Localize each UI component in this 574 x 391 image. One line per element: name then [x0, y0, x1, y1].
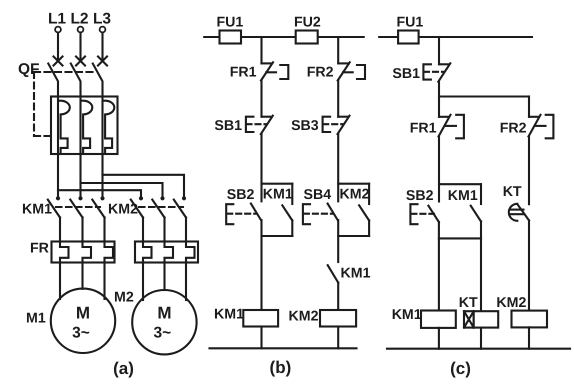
wire to KM1 coil c — [438, 222, 440, 311]
wire FR1 to SB1 — [260, 81, 262, 117]
QF dashed vertical — [33, 72, 35, 136]
aux contact KM1 (NO) b — [282, 184, 292, 236]
time contact KT (NO, on-delay) — [509, 204, 529, 221]
wire rail to FR2 — [337, 37, 339, 63]
svg-text:(b): (b) — [270, 358, 292, 377]
wire rail to FR1 — [260, 37, 262, 63]
svg-text:KM1: KM1 — [392, 307, 422, 323]
wire SB1 to split c — [438, 82, 440, 117]
motor M2 — [132, 290, 196, 354]
pushbutton SB2 (NO) — [226, 204, 261, 225]
split line c upper — [439, 95, 529, 97]
KM1 linkage dashed — [56, 206, 100, 208]
svg-text:L3: L3 — [93, 11, 111, 28]
terminal L3 — [100, 27, 106, 33]
svg-text:KM1: KM1 — [448, 188, 478, 204]
QF contact cross pole1 — [54, 57, 63, 66]
wire KT contact to KM2 coil — [528, 220, 530, 310]
wire KM2 coil to rail — [337, 327, 339, 349]
svg-text:FR1: FR1 — [410, 121, 437, 137]
svg-text:KM1: KM1 — [22, 202, 52, 218]
aux contact KM2 (NO) b — [359, 184, 369, 236]
pushbutton SB1 (NC) — [246, 116, 273, 134]
wire to motor1 a — [59, 263, 61, 300]
FR box 2 — [135, 242, 198, 263]
aux contact KM1 (NO) c — [471, 184, 481, 238]
KM2 linkage dashed — [139, 206, 183, 208]
wire FR2 to SB3 — [337, 81, 339, 117]
QF dashed horizontal to box — [34, 135, 51, 137]
join line c — [439, 237, 481, 239]
svg-text:(a): (a) — [113, 359, 134, 378]
svg-text:KM1: KM1 — [263, 187, 293, 203]
QF release pole3 — [103, 97, 115, 155]
svg-text:3~: 3~ — [154, 325, 172, 342]
svg-text:KT: KT — [503, 184, 522, 200]
thermal contact FR1 c — [439, 115, 464, 139]
thermal contact FR1 — [261, 62, 288, 80]
split line c lower — [439, 183, 481, 185]
FR2 heater pole1 — [143, 242, 152, 263]
KM2 main contact pole2 — [152, 196, 164, 241]
wire to KM1 coil — [260, 220, 262, 310]
svg-text:KM2: KM2 — [289, 309, 319, 325]
svg-text:KM1: KM1 — [214, 307, 244, 323]
FR2 heater pole2 — [165, 242, 174, 263]
QF linkage dashed line — [34, 71, 97, 73]
top rail b — [204, 36, 364, 38]
svg-text:M: M — [157, 304, 171, 323]
QF blade pole1 — [48, 64, 58, 97]
pushbutton SB3 (NC) — [323, 116, 350, 134]
QF blade pole2 — [71, 64, 81, 97]
svg-text:M2: M2 — [114, 290, 134, 306]
svg-text:SB3: SB3 — [291, 118, 319, 134]
wire FR2 to KT contact — [528, 137, 530, 205]
fuse FU1 c — [398, 31, 419, 44]
FR box 1 — [52, 242, 115, 263]
fuse FU2 b — [296, 31, 318, 44]
pushbutton SB2 (NO) c — [410, 204, 439, 224]
QF contact cross pole3 — [98, 57, 107, 66]
KM2 main contact pole1 — [131, 196, 143, 241]
pushbutton SB1 (NC) c — [423, 63, 450, 81]
KM1 main contact pole2 — [70, 196, 82, 241]
QF release box — [51, 97, 118, 155]
wire to motor1 b — [81, 263, 83, 289]
svg-text:SB2: SB2 — [227, 187, 255, 203]
svg-text:QF: QF — [18, 61, 40, 78]
split line branch1 — [262, 183, 293, 185]
wire FR1 to SB2 split c — [438, 137, 440, 202]
wire L2 to QF — [79, 33, 81, 61]
coil KM2 b — [320, 310, 356, 327]
wire pole1 below QF — [57, 154, 59, 196]
fuse FU1 b — [220, 31, 242, 44]
svg-text:L2: L2 — [70, 11, 88, 28]
svg-text:FU1: FU1 — [217, 15, 244, 31]
coil KM1 c — [421, 311, 456, 328]
svg-text:SB1: SB1 — [214, 118, 242, 134]
coil KM1 b — [243, 310, 278, 327]
wire SB1 to split — [260, 134, 262, 201]
svg-text:KM2: KM2 — [340, 187, 370, 203]
svg-text:3~: 3~ — [72, 325, 90, 342]
QF blade pole3 — [93, 64, 103, 97]
wire split to FR2 c — [528, 97, 530, 117]
svg-text:M1: M1 — [26, 311, 46, 327]
wire KM1 coil to rail c — [438, 328, 440, 349]
svg-text:FR1: FR1 — [230, 65, 257, 81]
KM1 main contact pole3 — [92, 196, 104, 241]
svg-text:KM1: KM1 — [341, 266, 371, 282]
wire rail to SB1 c — [438, 37, 440, 64]
svg-text:SB1: SB1 — [392, 66, 420, 82]
svg-text:(c): (c) — [450, 359, 471, 378]
svg-text:FR: FR — [30, 241, 49, 257]
join line branch1 — [262, 235, 293, 237]
wire to motor2 b — [163, 263, 165, 291]
terminal L1 — [55, 27, 61, 33]
pushbutton SB4 (NO) — [303, 204, 338, 225]
wire to motor2 c — [185, 263, 187, 301]
wire to KM1 interlock — [337, 220, 339, 262]
branch wire pole3 to KM2 pole3 — [103, 175, 185, 196]
wire KM1 coil to rail — [260, 327, 262, 349]
svg-text:SB4: SB4 — [304, 187, 332, 203]
QF contact cross pole2 — [76, 57, 85, 66]
wire KT coil to rail — [480, 328, 482, 349]
wire pole3 below QF — [101, 154, 103, 196]
svg-text:KM2: KM2 — [496, 295, 526, 311]
terminal L2 — [78, 27, 84, 33]
join line branch2 — [338, 235, 369, 237]
svg-text:L1: L1 — [48, 11, 66, 28]
top rail c — [379, 36, 532, 38]
FR2 heater pole3 — [186, 242, 195, 263]
wire L1 to QF — [57, 33, 59, 61]
motor M1 — [51, 289, 115, 353]
wire pole2 below QF — [79, 154, 81, 196]
coil KT (with delay element) — [464, 311, 498, 327]
svg-text:FU2: FU2 — [294, 15, 321, 31]
svg-text:KT: KT — [459, 295, 478, 311]
branch wire pole2 to KM2 pole2 — [81, 183, 163, 196]
coil KM2 c — [512, 311, 548, 328]
svg-text:M: M — [76, 304, 90, 323]
QF release pole2 — [81, 97, 93, 155]
wire KM2 coil to rail c — [528, 327, 530, 348]
wire L3 to QF — [101, 33, 103, 61]
svg-text:FR2: FR2 — [307, 65, 334, 81]
svg-text:SB2: SB2 — [406, 188, 434, 204]
FR heater pole2 — [83, 242, 92, 263]
QF release pole1 — [58, 97, 70, 155]
branch wire pole1 to KM2 pole1 — [58, 190, 141, 196]
svg-text:FR2: FR2 — [500, 121, 527, 137]
FR heater pole1 — [60, 242, 69, 263]
wire SB3 to split — [337, 134, 339, 201]
KM2 main contact pole3 — [174, 196, 186, 241]
wire to motor2 a — [142, 263, 144, 301]
interlock contact KM1 (NO) — [328, 265, 339, 310]
thermal contact FR2 — [338, 62, 365, 80]
split line branch2 — [338, 183, 369, 185]
bottom rail b — [210, 347, 357, 349]
FR heater pole3 — [105, 242, 114, 263]
KM1 main contact pole1 — [48, 196, 60, 241]
thermal contact FR2 c — [529, 115, 554, 139]
wire to motor1 c — [103, 263, 105, 300]
bottom rail c — [387, 348, 570, 350]
wire to KT coil — [480, 238, 482, 311]
svg-text:FU1: FU1 — [397, 15, 424, 31]
